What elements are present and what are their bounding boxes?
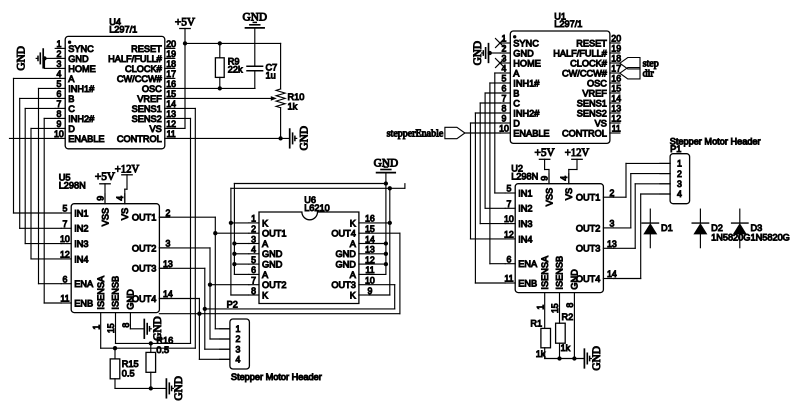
svg-text:9: 9 xyxy=(95,196,105,201)
svg-text:A: A xyxy=(262,270,269,280)
svg-text:GND: GND xyxy=(591,346,603,370)
svg-text:D2: D2 xyxy=(711,223,723,233)
svg-text:13: 13 xyxy=(611,104,621,114)
svg-text:3: 3 xyxy=(251,234,256,244)
svg-text:ENB: ENB xyxy=(74,298,93,308)
svg-text:10: 10 xyxy=(504,214,514,224)
svg-text:22k: 22k xyxy=(228,64,243,74)
svg-text:GND: GND xyxy=(243,11,267,23)
svg-text:IN2: IN2 xyxy=(518,204,532,214)
svg-text:1: 1 xyxy=(251,214,256,224)
svg-text:VS: VS xyxy=(595,118,607,128)
svg-text:SYNC: SYNC xyxy=(513,38,539,48)
svg-text:16: 16 xyxy=(166,79,176,89)
svg-text:6: 6 xyxy=(251,265,256,275)
svg-text:8: 8 xyxy=(565,303,575,308)
svg-text:5: 5 xyxy=(251,255,256,265)
svg-text:VSS: VSS xyxy=(544,188,554,206)
svg-text:OUT1: OUT1 xyxy=(132,213,157,223)
svg-text:A: A xyxy=(350,239,357,249)
svg-text:15: 15 xyxy=(611,84,621,94)
svg-text:14: 14 xyxy=(365,234,375,244)
svg-text:14: 14 xyxy=(607,269,617,279)
svg-text:OUT4: OUT4 xyxy=(331,229,356,239)
svg-text:GND: GND xyxy=(68,54,89,64)
svg-text:14: 14 xyxy=(163,289,173,299)
svg-text:5: 5 xyxy=(56,79,61,89)
svg-text:10: 10 xyxy=(60,234,70,244)
svg-text:INH1#: INH1# xyxy=(513,78,540,88)
svg-text:1: 1 xyxy=(91,325,101,330)
svg-text:D3: D3 xyxy=(751,223,763,233)
svg-text:IN1: IN1 xyxy=(74,208,88,218)
svg-text:GND: GND xyxy=(513,48,534,58)
svg-text:2: 2 xyxy=(56,49,61,59)
svg-text:12: 12 xyxy=(504,230,514,240)
svg-text:9: 9 xyxy=(56,119,61,129)
svg-text:SENS2: SENS2 xyxy=(577,108,607,118)
svg-text:8: 8 xyxy=(502,104,507,114)
svg-text:12: 12 xyxy=(166,119,176,129)
svg-text:+12V: +12V xyxy=(115,164,140,176)
svg-text:14: 14 xyxy=(611,94,621,104)
svg-text:SYNC: SYNC xyxy=(68,44,94,54)
svg-text:VS: VS xyxy=(150,124,162,134)
svg-text:R15: R15 xyxy=(122,359,139,369)
svg-text:A: A xyxy=(262,239,269,249)
svg-text:1: 1 xyxy=(535,305,545,310)
svg-text:ISENSB: ISENSB xyxy=(111,276,121,310)
svg-text:2: 2 xyxy=(609,188,614,198)
svg-text:12: 12 xyxy=(365,255,375,265)
svg-text:5: 5 xyxy=(502,74,507,84)
svg-text:B: B xyxy=(68,94,74,104)
svg-text:4: 4 xyxy=(115,196,125,201)
svg-text:VREF: VREF xyxy=(582,88,607,98)
svg-text:4: 4 xyxy=(559,176,569,181)
svg-text:16: 16 xyxy=(611,74,621,84)
svg-text:IN3: IN3 xyxy=(74,239,88,249)
svg-text:GND: GND xyxy=(262,249,283,259)
svg-text:OUT3: OUT3 xyxy=(132,264,157,274)
svg-text:1k: 1k xyxy=(561,343,571,353)
svg-text:15: 15 xyxy=(166,89,176,99)
svg-text:GND: GND xyxy=(472,41,484,65)
svg-text:3: 3 xyxy=(56,59,61,69)
svg-text:11: 11 xyxy=(365,265,374,275)
svg-text:9: 9 xyxy=(367,286,372,296)
svg-text:L297/1: L297/1 xyxy=(109,25,137,35)
svg-text:13: 13 xyxy=(163,259,173,269)
svg-text:IN1: IN1 xyxy=(518,188,532,198)
svg-text:6: 6 xyxy=(502,84,507,94)
svg-text:8: 8 xyxy=(121,323,131,328)
svg-text:D: D xyxy=(513,118,520,128)
svg-text:2: 2 xyxy=(236,334,241,344)
svg-text:L297/1: L297/1 xyxy=(554,19,582,29)
svg-text:0.5: 0.5 xyxy=(122,368,135,378)
svg-text:A: A xyxy=(513,68,520,78)
svg-text:VSS: VSS xyxy=(100,208,110,226)
svg-text:5: 5 xyxy=(506,184,511,194)
svg-text:6: 6 xyxy=(56,89,61,99)
svg-text:13: 13 xyxy=(166,109,176,119)
svg-text:D1: D1 xyxy=(661,223,673,233)
svg-text:GND: GND xyxy=(335,260,356,270)
svg-text:SENS1: SENS1 xyxy=(577,98,607,108)
svg-text:1: 1 xyxy=(236,324,241,334)
svg-text:B: B xyxy=(513,88,519,98)
svg-text:INH2#: INH2# xyxy=(513,108,540,118)
svg-text:15: 15 xyxy=(365,224,375,234)
svg-text:18: 18 xyxy=(166,59,176,69)
svg-text:14: 14 xyxy=(166,99,176,109)
svg-text:R2: R2 xyxy=(562,312,574,322)
svg-text:19: 19 xyxy=(166,49,176,59)
svg-text:10: 10 xyxy=(499,124,509,134)
svg-text:10: 10 xyxy=(365,276,375,286)
svg-text:A: A xyxy=(350,270,357,280)
svg-text:6: 6 xyxy=(62,274,67,284)
svg-text:17: 17 xyxy=(611,64,621,74)
svg-text:GND: GND xyxy=(262,260,283,270)
svg-text:RESET: RESET xyxy=(131,44,162,54)
svg-text:A: A xyxy=(68,74,75,84)
svg-text:GND: GND xyxy=(374,157,398,169)
svg-text:GND: GND xyxy=(299,126,311,150)
svg-text:+12V: +12V xyxy=(565,147,590,159)
svg-text:11: 11 xyxy=(167,129,176,139)
svg-text:ENB: ENB xyxy=(518,278,537,288)
svg-text:17: 17 xyxy=(166,69,176,79)
svg-text:GND: GND xyxy=(126,289,136,310)
svg-text:2: 2 xyxy=(251,224,256,234)
svg-text:CONTROL: CONTROL xyxy=(117,134,162,144)
svg-text:HOME: HOME xyxy=(513,58,541,68)
svg-text:SENS1: SENS1 xyxy=(132,104,162,114)
svg-text:11: 11 xyxy=(612,124,621,134)
svg-text:+5V: +5V xyxy=(175,17,196,29)
svg-text:stepperEnable: stepperEnable xyxy=(387,129,444,140)
svg-text:3: 3 xyxy=(236,344,241,354)
svg-text:0.5: 0.5 xyxy=(156,345,169,355)
svg-text:ISENSA: ISENSA xyxy=(540,255,550,290)
svg-text:1k: 1k xyxy=(288,102,298,112)
svg-text:OUT3: OUT3 xyxy=(576,244,601,254)
svg-text:K: K xyxy=(350,218,357,228)
svg-text:20: 20 xyxy=(611,34,621,44)
svg-text:Stepper Motor Header: Stepper Motor Header xyxy=(231,372,322,382)
svg-text:P2: P2 xyxy=(227,300,238,310)
svg-text:GND: GND xyxy=(152,316,164,340)
svg-text:1u: 1u xyxy=(266,71,276,81)
svg-text:K: K xyxy=(262,290,269,300)
svg-text:13: 13 xyxy=(607,239,617,249)
svg-text:ENA: ENA xyxy=(74,279,94,289)
svg-text:OUT1: OUT1 xyxy=(576,193,601,203)
svg-text:2: 2 xyxy=(677,169,682,179)
svg-text:GND: GND xyxy=(173,376,185,400)
svg-text:CW/CCW#: CW/CCW# xyxy=(117,74,163,84)
svg-text:GND: GND xyxy=(570,269,580,290)
svg-text:OUT2: OUT2 xyxy=(262,280,287,290)
svg-text:IN4: IN4 xyxy=(518,234,532,244)
svg-text:CONTROL: CONTROL xyxy=(562,128,607,138)
svg-text:RESET: RESET xyxy=(576,38,607,48)
svg-text:Stepper Motor Header: Stepper Motor Header xyxy=(670,137,761,147)
svg-text:4: 4 xyxy=(56,69,61,79)
svg-text:6: 6 xyxy=(506,254,511,264)
svg-text:1: 1 xyxy=(677,159,682,169)
svg-text:INH2#: INH2# xyxy=(68,114,95,124)
svg-text:10: 10 xyxy=(54,129,64,139)
svg-text:ENA: ENA xyxy=(518,259,538,269)
svg-text:15: 15 xyxy=(106,323,116,333)
svg-text:1k: 1k xyxy=(536,349,546,359)
svg-text:OUT2: OUT2 xyxy=(132,243,157,253)
svg-text:R10: R10 xyxy=(288,92,305,102)
svg-text:1: 1 xyxy=(56,39,61,49)
svg-text:9: 9 xyxy=(539,176,549,181)
svg-text:4: 4 xyxy=(677,189,682,199)
svg-text:L298N: L298N xyxy=(59,180,86,190)
svg-text:3: 3 xyxy=(677,179,682,189)
svg-text:C: C xyxy=(513,98,520,108)
svg-text:SENS2: SENS2 xyxy=(132,114,162,124)
svg-text:L6210: L6210 xyxy=(304,203,330,213)
svg-text:IN4: IN4 xyxy=(74,254,88,264)
svg-text:OSC: OSC xyxy=(587,78,607,88)
svg-text:OUT3: OUT3 xyxy=(331,280,356,290)
svg-text:+5V: +5V xyxy=(95,171,116,183)
svg-text:VREF: VREF xyxy=(137,94,162,104)
svg-text:8: 8 xyxy=(56,109,61,119)
svg-text:OSC: OSC xyxy=(142,84,162,94)
svg-text:4: 4 xyxy=(236,355,241,365)
svg-text:12: 12 xyxy=(60,250,70,260)
svg-text:VS: VS xyxy=(120,208,130,220)
svg-text:4: 4 xyxy=(251,245,256,255)
svg-text:18: 18 xyxy=(611,54,621,64)
svg-text:19: 19 xyxy=(611,44,621,54)
svg-text:VS: VS xyxy=(564,188,574,200)
svg-text:ISENSB: ISENSB xyxy=(555,256,565,290)
svg-text:16: 16 xyxy=(365,214,375,224)
svg-text:INH1#: INH1# xyxy=(68,84,95,94)
svg-text:ENABLE: ENABLE xyxy=(68,134,104,144)
svg-text:3: 3 xyxy=(165,239,170,249)
svg-text:11: 11 xyxy=(504,274,513,284)
svg-text:HALF/FULL#: HALF/FULL# xyxy=(553,48,608,58)
svg-text:OUT1: OUT1 xyxy=(262,229,287,239)
svg-text:20: 20 xyxy=(166,39,176,49)
svg-text:IN3: IN3 xyxy=(518,219,532,229)
svg-text:HALF/FULL#: HALF/FULL# xyxy=(108,54,163,64)
svg-text:7: 7 xyxy=(506,199,511,209)
svg-text:7: 7 xyxy=(62,219,67,229)
svg-text:12: 12 xyxy=(611,114,621,124)
svg-text:C: C xyxy=(68,104,75,114)
svg-text:ISENSA: ISENSA xyxy=(96,275,106,310)
svg-text:7: 7 xyxy=(502,94,507,104)
svg-text:L298N: L298N xyxy=(511,172,538,182)
svg-text:3: 3 xyxy=(609,219,614,229)
svg-text:CW/CCW#: CW/CCW# xyxy=(562,68,608,78)
svg-text:GND: GND xyxy=(16,46,28,70)
svg-text:ENABLE: ENABLE xyxy=(513,128,549,138)
svg-text:OUT2: OUT2 xyxy=(576,223,601,233)
svg-text:R1: R1 xyxy=(530,319,542,329)
svg-text:CLOCK#: CLOCK# xyxy=(125,64,163,74)
svg-text:11: 11 xyxy=(60,294,69,304)
svg-text:7: 7 xyxy=(56,99,61,109)
svg-text:K: K xyxy=(350,290,357,300)
svg-text:9: 9 xyxy=(502,114,507,124)
svg-text:1N5820G: 1N5820G xyxy=(751,233,790,243)
svg-text:CLOCK#: CLOCK# xyxy=(570,58,608,68)
svg-text:K: K xyxy=(262,218,269,228)
svg-text:IN2: IN2 xyxy=(74,224,88,234)
svg-text:8: 8 xyxy=(251,286,256,296)
svg-text:+5V: +5V xyxy=(535,147,556,159)
svg-text:5: 5 xyxy=(62,204,67,214)
svg-text:GND: GND xyxy=(335,249,356,259)
svg-text:dir: dir xyxy=(643,69,655,80)
svg-text:HOME: HOME xyxy=(68,64,96,74)
svg-text:15: 15 xyxy=(550,303,560,313)
svg-text:13: 13 xyxy=(365,245,375,255)
svg-text:2: 2 xyxy=(165,208,170,218)
svg-text:D: D xyxy=(68,124,75,134)
svg-text:7: 7 xyxy=(251,276,256,286)
